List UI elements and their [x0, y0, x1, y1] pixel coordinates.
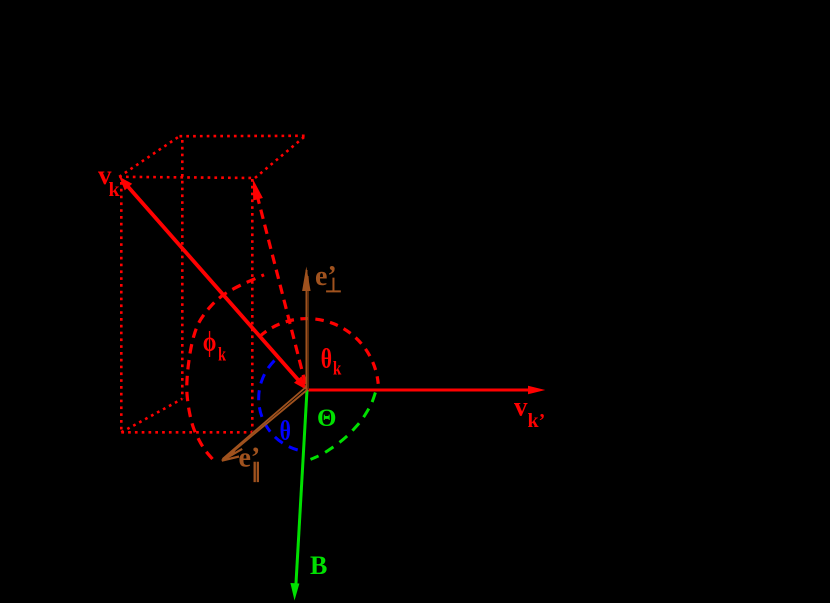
unit vector e'_perp (brown, upward) — [306, 270, 308, 390]
dotted projection box: back top edge — [180, 135, 306, 138]
arrowhead of e'_perp — [302, 267, 311, 292]
label theta (blue) — [280, 416, 291, 446]
dashed arc phi_k (azimuthal angle sweep) — [187, 275, 264, 459]
dashed blue arc theta (angle between e'_par and B) — [259, 361, 298, 451]
arrowhead of e'_par — [222, 450, 236, 461]
label theta_k — [321, 344, 342, 379]
arrowhead of v_k at outer end — [119, 177, 132, 191]
arrowhead of v_k' — [528, 386, 545, 394]
label phi_k — [203, 327, 227, 364]
dashed green arc Theta (angle between v_k' and B) — [311, 393, 376, 460]
dotted projection box: front-left vertical — [120, 182, 123, 432]
svg-text:Θ: Θ — [317, 405, 336, 432]
dotted projection box: bottom-left depth edge — [121, 399, 182, 433]
vector v_k (solid red, from upper-left corner into origin) — [124, 182, 305, 387]
arrowhead of v_k at origin — [294, 376, 307, 390]
dotted projection box: back-left vertical — [181, 140, 184, 399]
svg-text:B: B — [310, 551, 327, 580]
vector B (solid green, downward) — [296, 390, 308, 592]
dashed arc theta_k (polar angle, circle r=71.5 about origin) — [260, 319, 379, 384]
dotted projection box: top-right depth edge — [255, 136, 306, 178]
dotted projection box: top-left depth edge — [119, 136, 179, 177]
unit vector e'_par (brown, lower-left, double-line shaft) — [223, 390, 308, 460]
dotted projection box: front top edge — [119, 177, 255, 178]
arrowhead of projection arrow — [253, 179, 263, 201]
dotted projection box: front-right vertical — [251, 179, 254, 431]
vector v_k' (solid red, horizontal to the right) — [307, 389, 530, 392]
arrowhead of B — [290, 583, 299, 601]
dashed red projection arrow from origin to box corner — [256, 189, 306, 384]
dotted projection box: bottom front edge — [121, 431, 252, 434]
svg-text:θ: θ — [280, 416, 291, 446]
